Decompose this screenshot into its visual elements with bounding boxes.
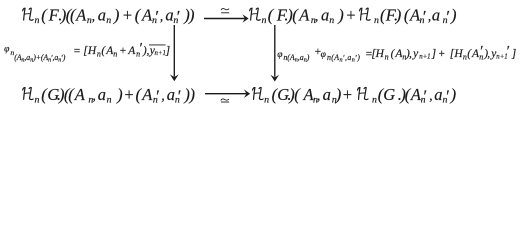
svg-text:′: ′ [422,7,426,26]
svg-text:H: H [453,48,463,60]
svg-text:n: n [113,49,117,58]
svg-text:,: , [92,10,96,25]
svg-text:): ) [189,85,196,104]
svg-text:n: n [262,15,267,26]
svg-text:a: a [167,85,175,104]
svg-text:,: , [428,10,432,25]
node: H_n(G.)(A_n,a_n)+H_n(G.)(A_n',a_n') bottom-right [253,85,457,106]
svg-text:): ) [62,53,66,62]
svg-text:A: A [74,85,86,104]
node: H_n(G.)((A_n,a_n)+(A_n',a_n')) bottom-left [23,85,195,106]
svg-text:A: A [298,6,310,25]
svg-text:n: n [97,49,101,58]
svg-text:n: n [35,15,40,26]
svg-text:+: + [119,45,127,57]
svg-text:+: + [345,6,356,25]
svg-text:(: ( [135,6,142,25]
svg-text:A: A [141,85,153,104]
svg-text:n: n [372,94,377,105]
svg-text:A: A [127,45,136,57]
svg-text:n+1: n+1 [419,53,430,60]
svg-text:y: y [412,48,419,60]
label: phi_{n(A_n,a_n)}+phi_{n(A_n',a_n')} = [H_n(A_n),y_{n+1}]+[H_n(A_n'),y_{n+1}'] (right arrow) [277,43,516,63]
svg-text:G: G [383,85,395,104]
svg-text:a: a [98,6,106,25]
svg-text:): ) [450,85,457,104]
svg-text:,: , [161,89,165,104]
svg-text:,: , [409,48,412,60]
svg-text:φ: φ [277,50,282,60]
svg-text:a: a [347,53,351,62]
node: H_n(F.)(A_n,a_n)+H_n(F.)(A_n',a_n') top-right [250,6,457,27]
arrow: left vertical [170,25,179,81]
svg-text:′: ′ [506,43,510,59]
svg-text:,: , [160,10,164,25]
svg-text:n: n [374,15,379,26]
svg-text:′: ′ [154,7,158,26]
svg-text:+: + [342,85,353,104]
arrow: bottom horizontal [205,89,250,98]
svg-text:A: A [75,6,87,25]
label: simeq under bottom arrow [221,99,229,102]
svg-text:A: A [333,53,339,62]
arrow: right vertical [270,25,279,82]
svg-text:n: n [264,94,269,105]
svg-text:): ) [450,6,457,25]
svg-text:,: , [487,48,490,60]
svg-text:n: n [35,94,40,105]
svg-text:′: ′ [445,7,449,26]
svg-text:]: ] [431,48,436,60]
svg-text:′: ′ [176,7,180,26]
svg-text:a: a [432,6,440,25]
svg-text:,: , [92,89,96,104]
svg-text:): ) [395,6,402,25]
svg-text:): ) [113,6,120,25]
svg-text:′: ′ [177,87,181,106]
svg-text:φ: φ [4,44,9,54]
svg-text:a: a [323,85,331,104]
svg-text:(: ( [41,6,48,25]
svg-text:a: a [98,85,106,104]
svg-text:n+1: n+1 [155,50,166,57]
svg-text:a: a [434,85,442,104]
svg-text:(: ( [268,6,275,25]
svg-text:′: ′ [155,87,159,106]
svg-text:+: + [123,85,134,104]
svg-text:n: n [106,15,111,26]
svg-text:=: = [73,45,81,57]
svg-text:,: , [315,10,319,25]
svg-text:(: ( [294,85,301,104]
svg-text:′: ′ [423,87,427,106]
svg-text:n: n [385,52,389,61]
svg-text:): ) [335,85,342,104]
node: H_n(F.)((A_n,a_n)+(A_n',a_n')) top-left [23,6,195,27]
svg-text:,: , [317,89,321,104]
svg-text:n: n [329,15,334,26]
svg-text:φ: φ [321,50,326,60]
label: phi_n_{(A_n,a_n)+(A_n',a_n')} = [H_n(A_n+A_n'), ybar_{n+1}] (left arrow) [4,40,170,63]
svg-text:): ) [337,6,344,25]
label: simeq over top arrow [221,9,229,13]
svg-text:): ) [116,85,123,104]
svg-text:+: + [122,6,133,25]
svg-text:H: H [375,48,385,60]
svg-text:): ) [356,53,360,62]
arrow: top horizontal [204,14,249,23]
svg-text:+: + [438,48,446,60]
svg-text:′: ′ [445,87,449,106]
svg-text:,: , [429,89,433,104]
svg-text:a: a [321,6,329,25]
svg-text:n: n [107,94,112,105]
svg-text:]: ] [165,45,170,57]
svg-text:]: ] [511,48,516,60]
svg-text:): ) [188,6,195,25]
svg-text:): ) [306,53,310,62]
svg-text:H: H [87,45,97,57]
